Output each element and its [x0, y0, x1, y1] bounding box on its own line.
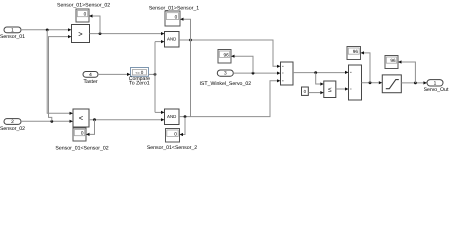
- display D6 inner value: [348, 48, 359, 54]
- svg-text:96: 96: [223, 52, 229, 57]
- wire LT out to AND2 in2: [89, 119, 161, 121]
- junction Sensor_01: [46, 29, 49, 32]
- wire feedback to display D6: [364, 53, 370, 83]
- saturation icon: [386, 80, 399, 89]
- wire Taster to compare: [98, 73, 127, 75]
- svg-text:0: 0: [174, 131, 177, 136]
- wire feedback to display D1: [93, 16, 101, 34]
- display D1 inner value: [77, 11, 87, 17]
- display D7 96: [385, 56, 398, 69]
- svg-text:<= 0: <= 0: [136, 70, 144, 75]
- svg-text:<: <: [79, 114, 84, 123]
- junction GT out: [99, 32, 102, 35]
- wire feedback to display D7: [402, 62, 416, 83]
- svg-text:96: 96: [390, 58, 396, 63]
- junction SW1 out: [314, 71, 317, 74]
- junction SW2 out: [369, 81, 372, 84]
- inport 1 Sensor_01: [4, 27, 21, 33]
- junction AND1 out: [189, 39, 192, 42]
- svg-text:2: 2: [11, 119, 14, 125]
- wire feedback to display D2: [184, 19, 191, 40]
- svg-text:IST_Winkel_Servo_02: IST_Winkel_Servo_02: [199, 81, 251, 87]
- svg-text:4: 4: [89, 72, 92, 78]
- display D5 96: [218, 50, 231, 64]
- display D7 inner value: [386, 57, 396, 63]
- svg-text:0: 0: [175, 14, 178, 19]
- svg-text:Sensor_01: Sensor_01: [0, 34, 25, 40]
- wire compare out tee: [149, 73, 156, 75]
- svg-text:0: 0: [81, 131, 84, 136]
- wire tee to AND2 in1: [155, 111, 161, 113]
- switch SW1 input marks: [282, 66, 284, 81]
- junction LT out: [93, 118, 96, 121]
- switch SW2: [349, 65, 362, 100]
- wire feedback to display D4: [90, 120, 95, 135]
- svg-text:Taster: Taster: [83, 79, 97, 85]
- wire AND2 out to SW1 in3: [179, 81, 277, 117]
- wire GT out to AND1 in1: [90, 33, 162, 35]
- display D3 inner value: [167, 130, 178, 136]
- wire LE out to SW2 in2: [336, 88, 345, 90]
- svg-text:Sensor_01>Sensor_02: Sensor_01>Sensor_02: [57, 3, 110, 9]
- wire IST_Winkel to SW1 in2: [233, 72, 277, 74]
- constant zero: [302, 87, 309, 95]
- logical operator AND2: [165, 109, 180, 125]
- switch SW2 input marks: [350, 72, 352, 89]
- svg-text:0: 0: [84, 12, 87, 17]
- outport 1 Servo_Out: [427, 80, 443, 86]
- wire vertical crossing: [190, 40, 192, 117]
- switch SW1: [281, 62, 294, 85]
- svg-text:1: 1: [11, 28, 14, 34]
- display D4 zero: [73, 128, 86, 141]
- junction Sensor_02: [50, 120, 53, 123]
- wire Sensor_01 down to LT in1: [47, 30, 69, 113]
- relational operator LT: [73, 109, 89, 127]
- svg-text:AND: AND: [167, 114, 176, 119]
- display D5 inner value: [219, 51, 229, 57]
- svg-text:AND: AND: [167, 36, 176, 41]
- display D2 zero: [165, 11, 180, 26]
- wire Sensor_02 to LT in2: [21, 120, 70, 122]
- svg-text:1: 1: [434, 80, 437, 86]
- display D6 96: [347, 47, 361, 60]
- junction AND2 out: [184, 115, 187, 118]
- svg-text:Sensor_01<Sensor_02: Sensor_01<Sensor_02: [55, 146, 108, 152]
- compare to zero block: [131, 68, 149, 77]
- svg-text:Sensor_01<Sensor_2: Sensor_01<Sensor_2: [147, 145, 197, 151]
- inport 4 Taster: [83, 72, 98, 78]
- svg-text:Sensor_02: Sensor_02: [0, 126, 25, 132]
- svg-text:To Zero1: To Zero1: [129, 81, 150, 87]
- wire tee to AND1 in2: [155, 41, 161, 43]
- svg-text:3: 3: [224, 71, 227, 77]
- saturation block: [382, 75, 401, 93]
- junction IST_Winkel: [252, 72, 255, 75]
- wire AND1 out to SW1 in1: [179, 40, 277, 66]
- svg-text:>: >: [78, 29, 83, 38]
- svg-text:Servo_Out: Servo_Out: [424, 87, 449, 93]
- wire SW2 out to saturation: [362, 82, 379, 84]
- inport 3 IST_Winkel_Servo_02: [217, 70, 233, 76]
- display D2 inner value: [166, 13, 178, 20]
- svg-text:96: 96: [353, 49, 359, 54]
- compare block inner: [132, 70, 146, 75]
- wire branch to LE in1: [316, 73, 321, 84]
- inport 2 Sensor_02: [4, 119, 21, 125]
- wire SW1 out to SW2 in1: [293, 72, 345, 74]
- svg-text:Sensor_01>Sensor_1: Sensor_01>Sensor_1: [149, 5, 199, 11]
- junction saturation out: [414, 82, 417, 85]
- wire feedback to display D5: [235, 56, 254, 73]
- logical operator AND1: [165, 32, 180, 48]
- svg-text:≤: ≤: [328, 87, 332, 94]
- wire Sensor_01 to GT in1: [21, 29, 68, 31]
- display D3 zero: [166, 129, 180, 143]
- relational operator LE: [324, 81, 336, 98]
- wire saturation out to outport: [401, 82, 423, 84]
- relational operator GT: [72, 25, 90, 43]
- display D1 zero: [76, 9, 89, 22]
- wire feedback to display D3: [183, 117, 185, 135]
- display D4 inner value: [74, 130, 84, 136]
- wire Sensor_02 up to GT in2: [49, 37, 69, 122]
- wire tee vertical: [154, 42, 156, 113]
- wire constant to LE in2: [308, 92, 320, 94]
